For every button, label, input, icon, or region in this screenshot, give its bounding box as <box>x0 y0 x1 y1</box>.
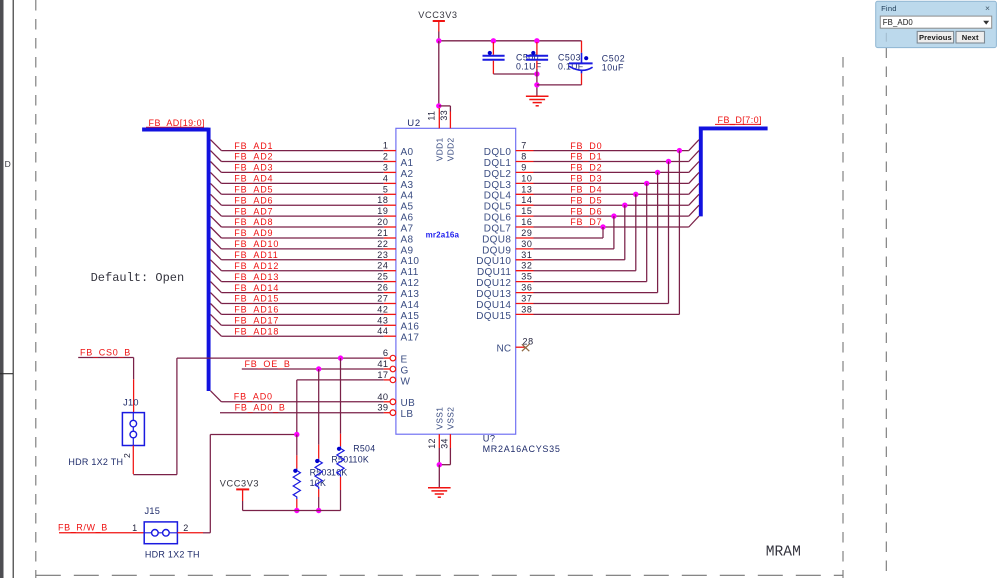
svg-text:FB_D1: FB_D1 <box>570 152 602 162</box>
wire FB_D7 (DQL7) <box>534 216 700 227</box>
svg-text:R501: R501 <box>331 455 353 465</box>
svg-text:DQU8: DQU8 <box>482 234 511 245</box>
wire C500 bottom to C503 bottom <box>493 73 537 75</box>
wire FB_AD8 / net label <box>211 216 384 227</box>
junction FB_D4 <box>633 192 638 197</box>
junction at VCC rail left <box>436 38 441 43</box>
net label FB_AD0_B and wire LB <box>220 403 384 413</box>
pin A15 (42) <box>377 304 419 321</box>
svg-text:17: 17 <box>377 370 388 380</box>
svg-text:DQU11: DQU11 <box>477 267 511 278</box>
junction FB_D6 <box>611 213 616 218</box>
svg-text:FB_AD6: FB_AD6 <box>234 195 273 205</box>
svg-text:DQU15: DQU15 <box>476 311 511 322</box>
wire E net <box>177 357 384 359</box>
svg-text:FB_R/W_B: FB_R/W_B <box>58 523 108 533</box>
svg-text:0.1UF: 0.1UF <box>516 62 542 72</box>
svg-text:2: 2 <box>183 523 188 533</box>
svg-text:W: W <box>401 376 411 387</box>
svg-text:23: 23 <box>377 250 388 260</box>
wire FB_AD15 / net label <box>211 293 384 304</box>
wire DQU15 horizontal <box>534 313 680 315</box>
pin LB (39) active-low <box>377 403 413 420</box>
svg-text:21: 21 <box>377 228 388 238</box>
wire J10 pin2 to E <box>133 358 177 475</box>
svg-text:11: 11 <box>427 111 437 121</box>
power symbol VCC3V3 (top) <box>418 10 457 32</box>
svg-text:26: 26 <box>377 283 388 293</box>
wire FB_D2 vertical to DQU13 <box>657 172 659 292</box>
pin VDD1 (11) <box>427 108 445 161</box>
wire FB_AD17 / net label <box>211 314 384 325</box>
wire DQU8 horizontal <box>534 237 604 239</box>
pin A4 (5) <box>383 184 414 201</box>
junction FB_D3 <box>644 181 649 186</box>
svg-text:40: 40 <box>377 392 388 402</box>
svg-text:5: 5 <box>383 184 389 194</box>
svg-text:A0: A0 <box>401 147 414 158</box>
svg-text:FB_AD10: FB_AD10 <box>234 239 279 249</box>
pin G (41) active-low <box>377 359 408 376</box>
pin DQU15 (38) <box>476 304 533 321</box>
wire FB_D3 vertical to DQU12 <box>646 183 648 281</box>
pin A8 (21) <box>377 228 413 245</box>
wire DQU9 horizontal <box>534 248 614 250</box>
svg-text:FB_AD2: FB_AD2 <box>234 152 273 162</box>
wire DQU12 horizontal <box>534 281 647 283</box>
svg-text:U2: U2 <box>407 118 421 129</box>
svg-text:29: 29 <box>521 228 532 238</box>
svg-text:FB_AD14: FB_AD14 <box>234 283 279 293</box>
junction R501 rail <box>316 508 321 513</box>
wire FB_D5 vertical to DQU10 <box>624 205 626 260</box>
svg-text:×: × <box>985 3 990 13</box>
net label FB_R/W_B and wire <box>58 523 144 533</box>
bus FB_AD[19:0] <box>142 118 209 391</box>
svg-text:E: E <box>401 355 408 366</box>
svg-text:10K: 10K <box>353 455 370 465</box>
svg-text:FB_AD5: FB_AD5 <box>234 185 273 195</box>
svg-text:2: 2 <box>383 152 389 162</box>
svg-text:A9: A9 <box>401 245 414 256</box>
svg-text:LB: LB <box>401 409 414 420</box>
wire VCC3V3 vertical to rail <box>438 32 440 41</box>
wire W net <box>297 380 384 435</box>
svg-text:DQL4: DQL4 <box>484 191 512 202</box>
pin DQU14 (37) <box>476 294 533 311</box>
svg-text:FB_AD11: FB_AD11 <box>234 250 278 260</box>
svg-text:MR2A16ACYS35: MR2A16ACYS35 <box>483 444 561 454</box>
wire FB_D4 vertical to DQU11 <box>635 194 637 270</box>
wire FB_AD18 / net label <box>211 325 384 336</box>
svg-text:FB_AD18: FB_AD18 <box>234 326 279 336</box>
svg-text:A12: A12 <box>401 278 420 289</box>
svg-text:FB_D6: FB_D6 <box>570 206 602 216</box>
wire jog to VDD2 <box>439 106 451 112</box>
wire FB_AD9 / net label <box>211 227 384 238</box>
svg-text:FB_OE_B: FB_OE_B <box>245 359 291 369</box>
pin NC (28) with no-connect X <box>497 337 534 355</box>
svg-text:VSS1: VSS1 <box>435 407 445 430</box>
junction FB_D2 <box>655 170 660 175</box>
svg-text:20: 20 <box>377 217 388 227</box>
wire C502 bottom to ground node <box>537 84 582 86</box>
svg-text:FB_AD0_B: FB_AD0_B <box>235 403 286 413</box>
svg-text:DQU14: DQU14 <box>476 300 511 311</box>
svg-text:FB_AD17: FB_AD17 <box>234 316 279 326</box>
svg-text:1: 1 <box>383 141 389 151</box>
junction G pullup <box>316 366 321 371</box>
resistor R501 10K (on G) <box>315 369 369 511</box>
svg-text:FB_D[7:0]: FB_D[7:0] <box>718 115 763 125</box>
wire FB_D6 vertical to DQU9 <box>613 216 615 249</box>
pin A13 (26) <box>377 283 419 300</box>
pin DQU10 (31) <box>476 250 533 267</box>
svg-text:FB_AD4: FB_AD4 <box>234 174 273 184</box>
svg-text:FB_CS0_B: FB_CS0_B <box>80 348 131 358</box>
pin DQU9 (30) <box>482 239 533 256</box>
svg-text:A11: A11 <box>401 267 419 278</box>
svg-text:A6: A6 <box>401 213 414 224</box>
svg-text:6: 6 <box>383 348 388 358</box>
junction C502 return <box>534 82 539 87</box>
svg-text:FB_D2: FB_D2 <box>570 163 602 173</box>
svg-text:41: 41 <box>377 359 388 369</box>
svg-text:DQU13: DQU13 <box>476 289 511 300</box>
svg-text:FB_AD3: FB_AD3 <box>234 163 273 173</box>
svg-text:12: 12 <box>427 438 437 449</box>
wire FB_D0 vertical to DQU15 <box>678 151 680 315</box>
wire FB_AD11 / net label <box>211 249 384 260</box>
junction VSS join <box>437 462 442 467</box>
wire FB_AD10 / net label <box>211 238 384 249</box>
wire FB_AD5 / net label <box>211 183 384 194</box>
svg-text:39: 39 <box>377 403 388 413</box>
wire C503 to ground node <box>536 69 538 96</box>
wire FB_D3 (DQL3) <box>534 172 700 183</box>
wire VCC rail to resistors <box>243 501 341 511</box>
pin DQL7 (16) <box>484 217 534 234</box>
svg-text:9: 9 <box>521 162 527 172</box>
svg-text:A16: A16 <box>401 322 420 333</box>
svg-text:MRAM: MRAM <box>766 545 801 561</box>
svg-text:FB_AD13: FB_AD13 <box>234 272 279 282</box>
svg-text:DQL3: DQL3 <box>484 180 512 191</box>
svg-text:13: 13 <box>521 184 532 194</box>
pin A1 (2) <box>383 152 414 169</box>
junction at C500 top <box>491 38 496 43</box>
svg-text:HDR 1X2 TH: HDR 1X2 TH <box>68 457 123 467</box>
svg-text:38: 38 <box>521 304 532 314</box>
wire FB_D5 (DQL5) <box>534 194 700 205</box>
wire FB_AD3 / net label <box>211 162 384 173</box>
svg-text:DQL7: DQL7 <box>484 223 512 234</box>
svg-text:NC: NC <box>497 344 512 355</box>
pin A3 (4) <box>383 173 414 190</box>
svg-text:A7: A7 <box>401 223 414 234</box>
pin A5 (18) <box>377 195 413 212</box>
svg-text:18: 18 <box>377 195 388 205</box>
svg-text:42: 42 <box>377 304 388 314</box>
svg-text:UB: UB <box>401 398 416 409</box>
wire FB_AD16 / net label <box>211 304 384 315</box>
svg-text:A13: A13 <box>401 289 420 300</box>
svg-text:A4: A4 <box>401 191 414 202</box>
junction FB_D5 <box>622 203 627 208</box>
svg-text:14: 14 <box>521 195 532 205</box>
svg-text:22: 22 <box>377 239 388 249</box>
pin A17 (44) <box>377 326 419 343</box>
wire FB_AD2 / net label <box>211 151 384 162</box>
svg-text:FB_AD[19:0]: FB_AD[19:0] <box>149 118 205 128</box>
svg-text:37: 37 <box>521 294 532 304</box>
junction E pullup <box>338 355 343 360</box>
svg-text:G: G <box>401 365 409 376</box>
pin DQU8 (29) <box>482 228 533 245</box>
wire FB_D1 (DQL1) <box>534 151 700 162</box>
wire FB_D4 (DQL4) <box>534 183 700 194</box>
svg-text:FB_D7: FB_D7 <box>570 217 602 227</box>
svg-text:FB_D3: FB_D3 <box>570 174 602 184</box>
svg-text:FB_AD8: FB_AD8 <box>234 217 273 227</box>
pin A6 (19) <box>377 206 413 223</box>
pin DQL5 (14) <box>484 195 534 212</box>
svg-text:15: 15 <box>521 206 532 216</box>
svg-text:30: 30 <box>521 239 532 249</box>
wire FB_AD7 / net label <box>211 205 384 216</box>
svg-text:34: 34 <box>440 438 450 449</box>
svg-text:DQL6: DQL6 <box>484 213 512 224</box>
svg-text:D: D <box>5 159 11 169</box>
wire FB_AD6 / net label <box>211 194 384 205</box>
junction at C503 top <box>534 38 539 43</box>
svg-text:35: 35 <box>521 272 532 282</box>
svg-text:10K: 10K <box>331 468 348 478</box>
svg-text:25: 25 <box>377 272 388 282</box>
connector J10 HDR 1X2 TH <box>68 397 144 467</box>
junction FB_D7 <box>600 224 605 229</box>
junction FB_D0 <box>677 148 682 153</box>
wire FB_D1 vertical to DQU14 <box>668 162 670 304</box>
svg-text:VCC3V3: VCC3V3 <box>220 479 259 489</box>
pin E (6) active-low <box>383 348 408 365</box>
svg-text:DQL1: DQL1 <box>484 158 512 169</box>
svg-text:A14: A14 <box>401 300 420 311</box>
svg-text:19: 19 <box>377 206 388 216</box>
wire FB_D0 (DQL0) <box>534 140 700 151</box>
wire DQU11 horizontal <box>534 270 636 272</box>
svg-text:FB_AD0: FB_AD0 <box>883 18 914 27</box>
wire FB_D2 (DQL2) <box>534 162 700 173</box>
svg-text:31: 31 <box>521 250 532 260</box>
pin A7 (20) <box>377 217 413 234</box>
wire DQU14 horizontal <box>534 303 669 305</box>
svg-text:FB_AD7: FB_AD7 <box>234 206 273 216</box>
junction VDD split <box>436 103 441 108</box>
wire VSS to ground <box>438 465 440 488</box>
Find dialog <box>876 1 997 47</box>
svg-text:FB_AD0: FB_AD0 <box>234 392 273 402</box>
junction W / J15 <box>294 432 299 437</box>
svg-text:DQU10: DQU10 <box>476 256 511 267</box>
wire VSS1 down <box>438 448 440 465</box>
wire VSS2 jog <box>439 448 450 465</box>
svg-text:36: 36 <box>521 283 532 293</box>
net label FB_CS0_B and wire <box>78 348 133 413</box>
pin VSS1 (12) <box>427 407 444 449</box>
IC U2 MR2A16ACYS35 body <box>396 118 561 454</box>
pin A2 (3) <box>383 162 414 179</box>
wire FB_AD12 / net label <box>211 260 384 271</box>
power symbol VCC3V3 (pull-ups) <box>220 479 259 501</box>
svg-text:HDR 1X2 TH: HDR 1X2 TH <box>145 549 200 559</box>
svg-text:VDD1: VDD1 <box>435 137 445 161</box>
svg-text:DQU9: DQU9 <box>482 245 511 256</box>
svg-text:DQL2: DQL2 <box>484 169 512 180</box>
svg-text:A1: A1 <box>401 158 414 169</box>
svg-text:J15: J15 <box>145 506 161 516</box>
svg-text:Find: Find <box>881 4 897 13</box>
wire FB_AD1 / net label <box>211 140 384 151</box>
wire decoupling top rail <box>439 40 582 42</box>
pin A16 (43) <box>377 315 419 332</box>
pin A10 (23) <box>377 250 419 267</box>
svg-text:A10: A10 <box>401 256 420 267</box>
pin DQU11 (32) <box>477 261 534 278</box>
svg-text:A15: A15 <box>401 311 420 322</box>
pin DQL0 (7) <box>484 141 534 158</box>
ground symbol (VSS) <box>428 488 451 497</box>
pin A11 (24) <box>377 261 418 278</box>
pin A9 (22) <box>377 239 413 256</box>
svg-text:10uF: 10uF <box>602 63 624 73</box>
wire FB_D7 vertical to DQU8 <box>602 227 604 238</box>
pin VSS2 (34) <box>440 407 456 449</box>
wire FB_AD14 / net label <box>211 282 384 293</box>
svg-text:Default: Open: Default: Open <box>91 271 185 285</box>
svg-text:4: 4 <box>383 173 389 183</box>
pin DQU13 (36) <box>476 283 533 300</box>
svg-text:24: 24 <box>377 261 388 271</box>
junction C503 bottom <box>534 71 539 76</box>
net label FB_AD0 and wire UB (from bus) <box>211 391 384 402</box>
svg-text:Previous: Previous <box>919 33 952 42</box>
pin A14 (27) <box>377 294 419 311</box>
svg-text:Next: Next <box>962 33 979 42</box>
svg-text:A8: A8 <box>401 234 414 245</box>
svg-text:FB_AD16: FB_AD16 <box>234 305 279 315</box>
svg-text:VDD2: VDD2 <box>446 137 456 161</box>
pin UB (40) active-low <box>377 392 415 409</box>
svg-text:FB_AD1: FB_AD1 <box>234 141 273 151</box>
svg-text:FB_AD12: FB_AD12 <box>234 261 279 271</box>
svg-text:FB_D4: FB_D4 <box>570 185 602 195</box>
svg-text:A17: A17 <box>401 333 420 344</box>
wire VCC down to VDD pins <box>438 41 440 106</box>
svg-text:8: 8 <box>521 152 527 162</box>
pin W (17) active-low <box>377 370 410 387</box>
net label FB_OE_B and wire G <box>242 359 384 369</box>
pin DQU12 (35) <box>476 272 533 289</box>
svg-text:J10: J10 <box>123 397 139 407</box>
capacitor C502 (polarized) <box>569 41 625 85</box>
junction FB_D1 <box>666 159 671 164</box>
svg-text:FB_AD9: FB_AD9 <box>234 228 273 238</box>
bus FB_D[7:0] <box>699 115 768 216</box>
pin DQL3 (10) <box>484 173 534 190</box>
svg-text:33: 33 <box>439 110 449 121</box>
svg-text:FB_D5: FB_D5 <box>570 195 602 205</box>
svg-text:FB_D0: FB_D0 <box>570 141 602 151</box>
pin VDD2 (33) <box>439 110 456 161</box>
connector J15 HDR 1X2 TH <box>132 506 200 559</box>
capacitor C500 <box>483 42 542 74</box>
pin A12 (25) <box>377 272 419 289</box>
wire J15 pin2 to W net <box>177 435 296 533</box>
svg-text:A3: A3 <box>401 180 414 191</box>
svg-text:3: 3 <box>383 162 389 172</box>
svg-text:VCC3V3: VCC3V3 <box>418 10 457 20</box>
svg-text:A2: A2 <box>401 169 414 180</box>
pin A0 (1) <box>383 141 414 158</box>
svg-text:VSS2: VSS2 <box>446 407 456 430</box>
svg-text:44: 44 <box>377 326 388 336</box>
resistor R504 10K (on E) <box>337 358 376 510</box>
wire DQU10 horizontal <box>534 259 625 261</box>
svg-text:U?: U? <box>483 434 496 444</box>
wire FB_D6 (DQL6) <box>534 205 700 216</box>
pin DQL6 (15) <box>484 206 534 223</box>
wire FB_AD4 / net label <box>211 172 384 183</box>
svg-text:DQU12: DQU12 <box>476 278 511 289</box>
svg-text:27: 27 <box>377 294 388 304</box>
ground symbol (decoupling) <box>526 96 549 106</box>
svg-text:32: 32 <box>521 261 532 271</box>
svg-text:2: 2 <box>122 453 132 458</box>
svg-text:mr2a16a: mr2a16a <box>426 230 460 239</box>
pin DQL4 (13) <box>484 184 534 201</box>
pin DQL2 (9) <box>484 162 534 179</box>
wire DQU13 horizontal <box>534 292 658 294</box>
junction R503 rail <box>294 508 299 513</box>
svg-text:16: 16 <box>521 217 532 227</box>
pin DQL1 (8) <box>484 152 534 169</box>
resistor R503 10K (on W) <box>293 435 347 511</box>
svg-text:7: 7 <box>521 141 527 151</box>
svg-text:10: 10 <box>521 173 532 183</box>
svg-text:DQL0: DQL0 <box>484 147 512 158</box>
svg-text:A5: A5 <box>401 202 414 213</box>
svg-text:1: 1 <box>132 523 137 533</box>
wire FB_AD13 / net label <box>211 271 384 282</box>
svg-text:DQL5: DQL5 <box>484 202 512 213</box>
capacitor C503 <box>526 42 584 72</box>
svg-text:43: 43 <box>377 315 388 325</box>
svg-text:R504: R504 <box>353 444 375 454</box>
svg-text:FB_AD15: FB_AD15 <box>234 294 279 304</box>
